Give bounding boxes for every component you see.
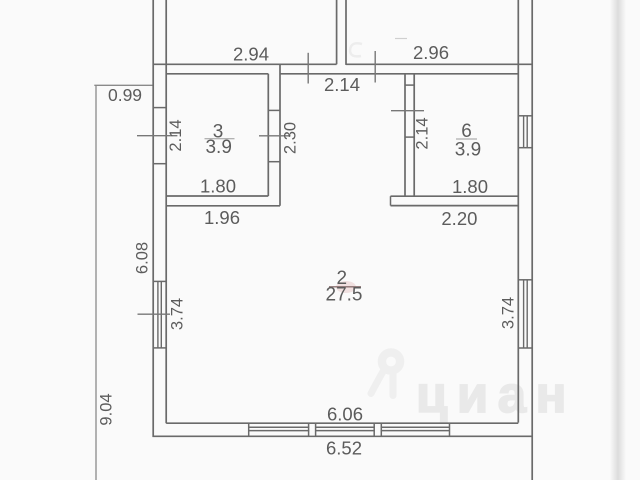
room 3 right wall lower connector	[268, 161, 280, 163]
svg-text:6.06: 6.06	[327, 403, 363, 424]
room 3 right wall dimension tick	[259, 135, 291, 137]
room 3 right wall inner line	[267, 74, 269, 196]
right wall lower window top connector	[518, 279, 532, 281]
room 6 left wall left line	[404, 74, 406, 196]
svg-text:3.9: 3.9	[205, 137, 231, 158]
watermark pin logo	[371, 352, 400, 395]
left window upper connector	[153, 280, 166, 282]
lot boundary vertical line	[95, 85, 97, 480]
room 6 bottom wall lower line	[391, 205, 519, 207]
right wall upper window glazing 2	[526, 116, 528, 148]
building bottom wall outer line	[153, 435, 533, 437]
svg-text:2.14: 2.14	[167, 119, 185, 151]
lot boundary horizontal segment	[94, 84, 153, 86]
upper structure middle wall left line	[336, 0, 338, 64]
top wall dimension tick right	[374, 51, 376, 83]
room 3 bottom wall upper line	[166, 195, 268, 197]
svg-text:циан: циан	[416, 366, 576, 423]
watermark scan shadow band right edge	[610, 0, 626, 480]
building bottom wall inner line	[166, 422, 518, 424]
top wall dimension tick left	[307, 53, 309, 84]
bottom window pier 1	[309, 423, 316, 436]
left wall dimension tick room 3	[137, 135, 177, 137]
bottom window left end connector	[248, 423, 250, 436]
bottom window glazing line 2	[249, 430, 450, 432]
svg-text:6.52: 6.52	[326, 438, 362, 459]
building top wall inner line segment A	[166, 73, 268, 75]
svg-text:1.80: 1.80	[452, 176, 488, 197]
svg-text:3.74: 3.74	[500, 297, 518, 329]
svg-text:2.20: 2.20	[441, 208, 477, 229]
room 3 label underline	[205, 138, 235, 140]
svg-text:3.74: 3.74	[169, 298, 187, 330]
right wall upper window glazing 1	[523, 116, 525, 148]
room 6 left wall dimension tick	[391, 110, 424, 112]
svg-text:1.80: 1.80	[200, 176, 236, 197]
left window dimension tick	[138, 313, 171, 315]
room 6 bottom wall upper line	[391, 195, 519, 197]
building top wall outer line right segment	[346, 63, 533, 65]
left window glazing line 1	[157, 281, 159, 348]
svg-text:2.14: 2.14	[414, 117, 432, 149]
building left wall inner line	[165, 0, 167, 423]
left wall opening lower connector	[153, 163, 166, 165]
room 6 bottom wall left end cap	[390, 196, 392, 205]
svg-text:2.14: 2.14	[324, 74, 360, 95]
left wall opening upper connector	[153, 107, 166, 109]
right wall lower window glazing 1	[523, 280, 525, 348]
svg-text:27.5: 27.5	[326, 284, 363, 305]
right wall upper window bottom connector	[518, 147, 532, 149]
building left wall outer line	[152, 0, 154, 437]
right wall upper window top connector	[518, 115, 532, 117]
bottom window right end connector	[449, 423, 451, 436]
room 6 left wall lower connector	[405, 136, 414, 138]
bottom window glazing line 1	[249, 426, 450, 428]
faint scan fragment line top right	[395, 38, 407, 40]
right wall lower window glazing 2	[526, 280, 528, 348]
room 2 label underline	[329, 286, 361, 288]
building top wall outer line left segment	[153, 63, 337, 65]
svg-text:1.96: 1.96	[204, 207, 240, 228]
room 6 left wall right line	[413, 74, 415, 196]
room 3 bottom wall lower line	[166, 205, 280, 207]
svg-text:0.99: 0.99	[108, 85, 142, 105]
room 3 right wall upper connector	[268, 109, 280, 111]
watermark faint arc top center	[350, 43, 362, 56]
room 3 right wall outer line	[279, 64, 281, 206]
building top wall inner line segment B	[280, 73, 518, 75]
svg-text:9.04: 9.04	[98, 393, 116, 425]
room 6 label underline	[456, 138, 477, 140]
left window lower connector	[153, 347, 166, 349]
svg-text:3.9: 3.9	[455, 139, 481, 160]
svg-text:2.30: 2.30	[282, 122, 300, 154]
bottom window pier 2	[374, 423, 381, 436]
building right wall outer line	[531, 0, 533, 480]
building right wall inner line	[517, 0, 519, 423]
left window glazing line 2	[160, 281, 162, 348]
svg-text:2.94: 2.94	[233, 44, 269, 65]
watermark red tint under room 2 label	[336, 281, 356, 293]
svg-text:2.96: 2.96	[413, 42, 449, 63]
svg-text:6.08: 6.08	[134, 242, 152, 274]
room 6 left wall upper connector	[405, 84, 414, 86]
right wall lower window bottom connector	[518, 347, 532, 349]
upper structure middle wall right line	[345, 0, 347, 65]
